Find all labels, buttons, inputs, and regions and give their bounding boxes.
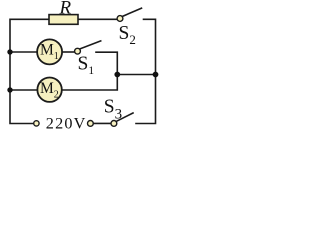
svg-text:R: R [59, 0, 72, 19]
svg-text:220V: 220V [46, 115, 87, 133]
